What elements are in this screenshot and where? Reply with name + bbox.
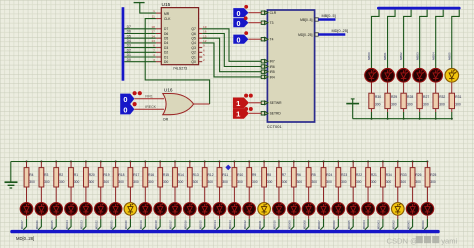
resistor R28	[401, 93, 413, 108]
svg-text:300: 300	[297, 180, 303, 184]
wire led MD11 to bus	[189, 215, 191, 219]
svg-text:MB[0..5]: MB[0..5]	[322, 14, 336, 18]
wire resistor R16 to led	[144, 187, 146, 202]
svg-text:IR6: IR6	[270, 65, 275, 69]
resistor R34	[381, 168, 392, 187]
junction	[337, 161, 339, 163]
resistor R13	[187, 168, 198, 187]
svg-text:D0: D0	[127, 58, 131, 62]
wire rail to resistor R20	[85, 162, 87, 168]
wire D6 bus to U15	[124, 33, 156, 35]
resistor R12	[202, 168, 213, 187]
svg-text:D6: D6	[127, 30, 131, 34]
watermark	[387, 236, 458, 245]
wire resistor R19 to led	[100, 187, 102, 202]
led MB4	[429, 69, 443, 83]
wire led MD5 to bus	[100, 215, 102, 219]
wire resistor R2 to led	[55, 187, 57, 202]
wire D7 bus to U15	[124, 28, 156, 30]
led MD16	[258, 203, 271, 216]
wire led MD12 to bus	[204, 215, 206, 219]
wire led MD7 to bus	[129, 215, 131, 219]
junction	[204, 161, 206, 163]
svg-text:R6: R6	[297, 173, 301, 177]
wire resistor R18 to led	[115, 187, 117, 202]
wire led-resistor R28	[403, 82, 405, 93]
wire T3	[248, 22, 261, 24]
svg-text:300: 300	[282, 180, 288, 184]
junction	[26, 161, 28, 163]
svg-text:300: 300	[375, 103, 381, 107]
svg-text:D5: D5	[127, 34, 131, 38]
svg-text:R2: R2	[59, 173, 63, 177]
wire rail to resistor R19	[100, 162, 102, 168]
svg-text:MD008: MD008	[302, 220, 306, 229]
junction	[233, 161, 235, 163]
svg-text:R29: R29	[391, 95, 397, 99]
pin IR6	[261, 65, 275, 69]
svg-text:MD013: MD013	[228, 220, 232, 229]
wire bus to LED MB2	[404, 10, 412, 69]
wire resistor R28 to rail	[403, 109, 405, 113]
svg-text:300: 300	[407, 103, 413, 107]
svg-text:74LS273: 74LS273	[173, 66, 187, 70]
wire rail to resistor R14	[174, 162, 176, 168]
svg-text:MD009: MD009	[288, 220, 292, 229]
svg-text:MD[0..25]: MD[0..25]	[332, 29, 348, 33]
wire Q4 to IR4	[199, 42, 203, 44]
svg-text:300: 300	[44, 180, 50, 184]
svg-text:R26: R26	[415, 173, 421, 177]
wire D5 bus to U15	[124, 37, 156, 39]
logic state T4	[233, 35, 248, 45]
logic state SETWR	[233, 98, 249, 109]
wire led-resistor R31	[451, 82, 453, 93]
wire resistor R3 to led	[40, 187, 42, 202]
svg-text:SETWR: SETWR	[270, 101, 283, 105]
svg-text:R25: R25	[430, 173, 436, 177]
pin IR7	[261, 59, 275, 63]
bus MB top right	[377, 7, 461, 10]
wire led MD15 to bus	[248, 215, 250, 219]
svg-text:D7: D7	[127, 25, 131, 29]
svg-text:300: 300	[371, 180, 377, 184]
svg-text:D1: D1	[164, 55, 168, 59]
svg-text:R23: R23	[341, 173, 347, 177]
svg-text:300: 300	[356, 180, 362, 184]
pin U16 output	[194, 103, 210, 105]
junction	[403, 118, 405, 120]
led MD17	[273, 203, 286, 216]
svg-text:300: 300	[133, 180, 139, 184]
wire rail to resistor R25	[426, 162, 428, 168]
power terminal	[134, 2, 145, 4]
svg-text:17: 17	[151, 30, 155, 34]
wire rail to resistor R16	[144, 162, 146, 168]
wire resistor R24 to led	[323, 187, 325, 202]
svg-text:18: 18	[151, 25, 155, 29]
wire rail to resistor R17	[129, 162, 131, 168]
svg-text:MD027: MD027	[20, 220, 24, 229]
svg-text:0: 0	[237, 9, 241, 18]
svg-text:9: 9	[203, 44, 205, 48]
wire D4 bus to U15	[124, 42, 156, 44]
origin marker	[225, 165, 231, 171]
led MD24	[377, 203, 390, 216]
pin T3	[261, 21, 273, 25]
wire resistor R11 to led	[219, 187, 221, 202]
svg-text:4: 4	[153, 53, 155, 57]
svg-text:MB00: MB00	[367, 52, 371, 60]
svg-text:R16: R16	[148, 173, 154, 177]
svg-text:R22: R22	[356, 173, 362, 177]
wire resistor R12 to led	[204, 187, 206, 202]
svg-text:MD024: MD024	[65, 220, 69, 229]
svg-text:R31: R31	[455, 95, 461, 99]
led MD15	[243, 203, 256, 216]
svg-text:U15: U15	[162, 2, 171, 8]
junction	[352, 161, 354, 163]
register U15 74LS273	[161, 2, 198, 70]
led MD8	[139, 203, 152, 216]
svg-text:MB03: MB03	[415, 52, 419, 60]
wire led MD27 to bus	[426, 215, 428, 219]
led MD10	[169, 203, 182, 216]
svg-text:300: 300	[208, 180, 214, 184]
wire D1 bus to U15	[124, 56, 156, 58]
wire rail to resistor R23	[337, 162, 339, 168]
pin Q1 stub	[199, 56, 203, 58]
svg-text:IR7: IR7	[270, 60, 275, 64]
svg-text:IR4: IR4	[270, 75, 275, 79]
svg-text:300: 300	[341, 180, 347, 184]
indicator dots SETWR/SETRD	[244, 94, 248, 98]
wire rail to resistor R6	[293, 162, 295, 168]
svg-text:300: 300	[222, 180, 228, 184]
wire resistor R31 to rail	[451, 109, 453, 113]
junction	[100, 161, 102, 163]
led MD22	[347, 203, 360, 216]
svg-text:300: 300	[439, 103, 445, 107]
svg-text:Q0: Q0	[191, 60, 196, 64]
svg-text:0: 0	[123, 106, 127, 115]
svg-text:T3: T3	[270, 21, 274, 25]
junction	[115, 161, 117, 163]
svg-text:300: 300	[267, 180, 273, 184]
svg-text:MD021: MD021	[109, 220, 113, 229]
svg-text:MD018: MD018	[154, 220, 158, 229]
svg-text:MD[0..25]: MD[0..25]	[298, 33, 312, 37]
svg-text:R9: R9	[252, 173, 256, 177]
wire bus to LED MB1	[388, 10, 396, 69]
led MB5	[445, 69, 459, 83]
indicator dot T3	[244, 16, 248, 20]
junction	[293, 161, 295, 163]
resistor R9	[247, 168, 258, 187]
svg-text:MD023: MD023	[80, 220, 84, 229]
junction	[367, 161, 369, 163]
wire OR output to U15 CLK	[156, 18, 161, 20]
bus D[0..7] vertical bar	[122, 7, 125, 81]
resistor R33	[395, 168, 406, 187]
svg-text:300: 300	[104, 180, 110, 184]
wire rail to resistor R1	[70, 162, 72, 168]
svg-text:300: 300	[59, 180, 65, 184]
indicator dot CLR	[244, 5, 248, 9]
logic state CLR	[233, 8, 248, 18]
led MD14	[228, 203, 241, 216]
svg-text:MD014: MD014	[213, 220, 217, 229]
led MD26	[406, 203, 419, 216]
svg-text:R8: R8	[267, 173, 271, 177]
svg-text:MB05: MB05	[447, 52, 451, 60]
wire led-resistor R29	[387, 82, 389, 93]
wire resistor R29 to rail	[387, 109, 389, 113]
wire led MD3 to bus	[70, 215, 72, 219]
wire rail to resistor R15	[159, 162, 161, 168]
svg-text:MB04: MB04	[431, 52, 435, 60]
svg-text:Q3: Q3	[191, 46, 196, 50]
wire rail to resistor R2	[55, 162, 57, 168]
led MB3	[413, 69, 427, 83]
svg-text:12: 12	[203, 39, 207, 43]
pin SETRD	[261, 111, 281, 115]
svg-text:300: 300	[415, 180, 421, 184]
svg-text:MD001: MD001	[406, 220, 410, 229]
led MD1	[35, 203, 48, 216]
led MD12	[198, 203, 211, 216]
svg-text:MR: MR	[164, 12, 170, 16]
logic state FIR1	[120, 94, 134, 104]
svg-text:yami: yami	[441, 236, 457, 245]
svg-text:R14: R14	[178, 173, 184, 177]
wire resistor R5 to led	[308, 187, 310, 202]
wire led MD6 to bus	[115, 215, 117, 219]
svg-text:MD002: MD002	[391, 220, 395, 229]
svg-text:R12: R12	[208, 173, 214, 177]
wire rail to resistor R5	[308, 162, 310, 168]
wire rail to resistor R24	[323, 162, 325, 168]
svg-text:D7: D7	[164, 27, 168, 31]
svg-text:R5: R5	[311, 173, 315, 177]
wire rail to resistor R22	[352, 162, 354, 168]
wire rail to resistor R4	[26, 162, 28, 168]
svg-text:R18: R18	[118, 173, 124, 177]
svg-text:R10: R10	[237, 173, 243, 177]
wire led MD22 to bus	[352, 215, 354, 219]
svg-text:3: 3	[153, 58, 155, 62]
svg-text:300: 300	[386, 180, 392, 184]
led MD23	[362, 203, 375, 216]
pin T4	[261, 37, 273, 41]
wire led MD0 to bus	[26, 215, 28, 219]
svg-text:300: 300	[89, 180, 95, 184]
svg-text:300: 300	[193, 180, 199, 184]
wire rail to resistor R12	[204, 162, 206, 168]
wire led MD17 to bus	[278, 215, 280, 219]
wire resistor R34 to led	[382, 187, 384, 202]
led MD3	[65, 203, 78, 216]
svg-text:OR: OR	[163, 118, 169, 122]
svg-text:CLR: CLR	[270, 11, 277, 15]
resistor R10	[232, 168, 243, 187]
indicator dot T4	[244, 31, 248, 35]
resistor R30	[369, 93, 381, 108]
svg-text:300: 300	[430, 180, 436, 184]
svg-text:300: 300	[326, 180, 332, 184]
svg-text:MD012: MD012	[243, 220, 247, 229]
svg-text:MD011: MD011	[258, 220, 262, 229]
resistor R8	[262, 168, 273, 187]
wire led MD23 to bus	[367, 215, 369, 219]
wire D2 bus to U15	[124, 51, 156, 53]
svg-text:R33: R33	[401, 173, 407, 177]
wire resistor R22 to led	[352, 187, 354, 202]
wire rail to resistor R34	[382, 162, 384, 168]
wire led MD14 to bus	[233, 215, 235, 219]
svg-text:MD004: MD004	[362, 220, 366, 229]
junction	[278, 161, 280, 163]
wire ground rail right	[353, 118, 452, 120]
wire led MD8 to bus	[144, 215, 146, 219]
wire led MD24 to bus	[382, 215, 384, 219]
wire led-resistor R30	[371, 82, 373, 93]
svg-text:T4: T4	[270, 38, 274, 42]
wire rail to resistor R8	[263, 162, 265, 168]
svg-text:300: 300	[29, 180, 35, 184]
wire D3 bus to U15	[124, 47, 156, 49]
pin IR4	[261, 75, 275, 79]
wire rail to resistor R18	[115, 162, 117, 168]
resistor R1	[69, 168, 80, 187]
svg-text:16: 16	[203, 30, 207, 34]
wire resistor R6 to led	[293, 187, 295, 202]
junction	[55, 161, 57, 163]
wire ground rail bottom	[11, 161, 428, 163]
svg-text:R20: R20	[89, 173, 95, 177]
bus MD[0..25]	[318, 33, 345, 36]
wire led MD25 to bus	[397, 215, 399, 219]
svg-text:15: 15	[203, 34, 207, 38]
led MD7	[124, 203, 137, 216]
wire SETRD	[249, 112, 261, 114]
junction	[248, 161, 250, 163]
junction	[219, 161, 221, 163]
wire SETWR	[249, 102, 261, 104]
wire rail to resistor R13	[189, 162, 191, 168]
junction	[435, 118, 437, 120]
svg-text:14: 14	[151, 34, 155, 38]
svg-text:MD007: MD007	[317, 220, 321, 229]
svg-text:MD003: MD003	[377, 220, 381, 229]
svg-text:R30: R30	[375, 95, 381, 99]
wire rail to resistor R11	[219, 162, 221, 168]
resistor R7	[277, 168, 288, 187]
wire resistor R25 to led	[426, 187, 428, 202]
subcircuit CCT001	[267, 10, 315, 129]
svg-text:R15: R15	[163, 173, 169, 177]
svg-text:R11: R11	[222, 173, 228, 177]
junction	[397, 161, 399, 163]
svg-text:R17: R17	[133, 173, 139, 177]
junction	[263, 161, 265, 163]
wire led MD19 to bus	[308, 215, 310, 219]
wire resistor R9 to led	[248, 187, 250, 202]
svg-text:300: 300	[148, 180, 154, 184]
wire rail to resistor R33	[397, 162, 399, 168]
wire led MD21 to bus	[337, 215, 339, 219]
junction	[144, 161, 146, 163]
svg-text:1: 1	[153, 9, 155, 13]
svg-text:Q1: Q1	[191, 55, 196, 59]
resistor R25	[425, 168, 436, 187]
svg-text:FIR1: FIR1	[145, 95, 153, 99]
svg-text:0: 0	[123, 95, 127, 104]
svg-text:300: 300	[401, 180, 407, 184]
svg-text:MD025: MD025	[50, 220, 54, 229]
svg-text:MD000: MD000	[421, 220, 425, 229]
svg-text:11: 11	[152, 15, 155, 19]
junction	[323, 161, 325, 163]
svg-text:MD019: MD019	[139, 220, 143, 229]
led MB2	[397, 69, 411, 83]
svg-text:MD017: MD017	[169, 220, 173, 229]
wire rail to resistor R21	[367, 162, 369, 168]
led MD6	[109, 203, 122, 216]
wire led MD20 to bus	[323, 215, 325, 219]
svg-text:MB02: MB02	[399, 52, 403, 60]
svg-text:300: 300	[163, 180, 169, 184]
junction	[412, 161, 414, 163]
svg-text:IRECK: IRECK	[145, 105, 156, 109]
wire led MD16 to bus	[263, 215, 265, 219]
led MD2	[50, 203, 63, 216]
svg-text:D2: D2	[127, 48, 131, 52]
pin SETWR	[261, 101, 282, 105]
wire T4	[248, 38, 261, 40]
junction	[159, 161, 161, 163]
svg-text:MD016: MD016	[184, 220, 188, 229]
wire led MD13 to bus	[219, 215, 221, 219]
wire led MD1 to bus	[40, 215, 42, 219]
resistor R17	[128, 168, 139, 187]
junction	[189, 161, 191, 163]
wire D0 bus to U15	[124, 61, 156, 63]
resistor R4	[24, 168, 35, 187]
wire resistor R14 to led	[174, 187, 176, 202]
wire led MD18 to bus	[293, 215, 295, 219]
wire Q7 to IR7	[199, 28, 203, 30]
pin Q3 stub	[199, 47, 203, 49]
bus MD[0..28]	[10, 230, 439, 233]
svg-text:D5: D5	[164, 37, 168, 41]
svg-text:R28: R28	[407, 95, 413, 99]
resistor R15	[158, 168, 169, 187]
wire led-resistor R32	[435, 82, 437, 93]
svg-text:SETRD: SETRD	[270, 112, 282, 116]
svg-text:8: 8	[153, 44, 155, 48]
svg-text:Q2: Q2	[191, 51, 196, 55]
wire led MD10 to bus	[174, 215, 176, 219]
wire Q6 to IR6	[199, 33, 203, 35]
led MD0	[20, 203, 33, 216]
svg-text:Q4: Q4	[191, 41, 196, 45]
pin Q2 stub	[199, 51, 203, 53]
ground bottom left	[5, 162, 18, 189]
resistor R2	[54, 168, 65, 187]
svg-text:D2: D2	[164, 51, 168, 55]
svg-text:MD015: MD015	[198, 220, 202, 229]
